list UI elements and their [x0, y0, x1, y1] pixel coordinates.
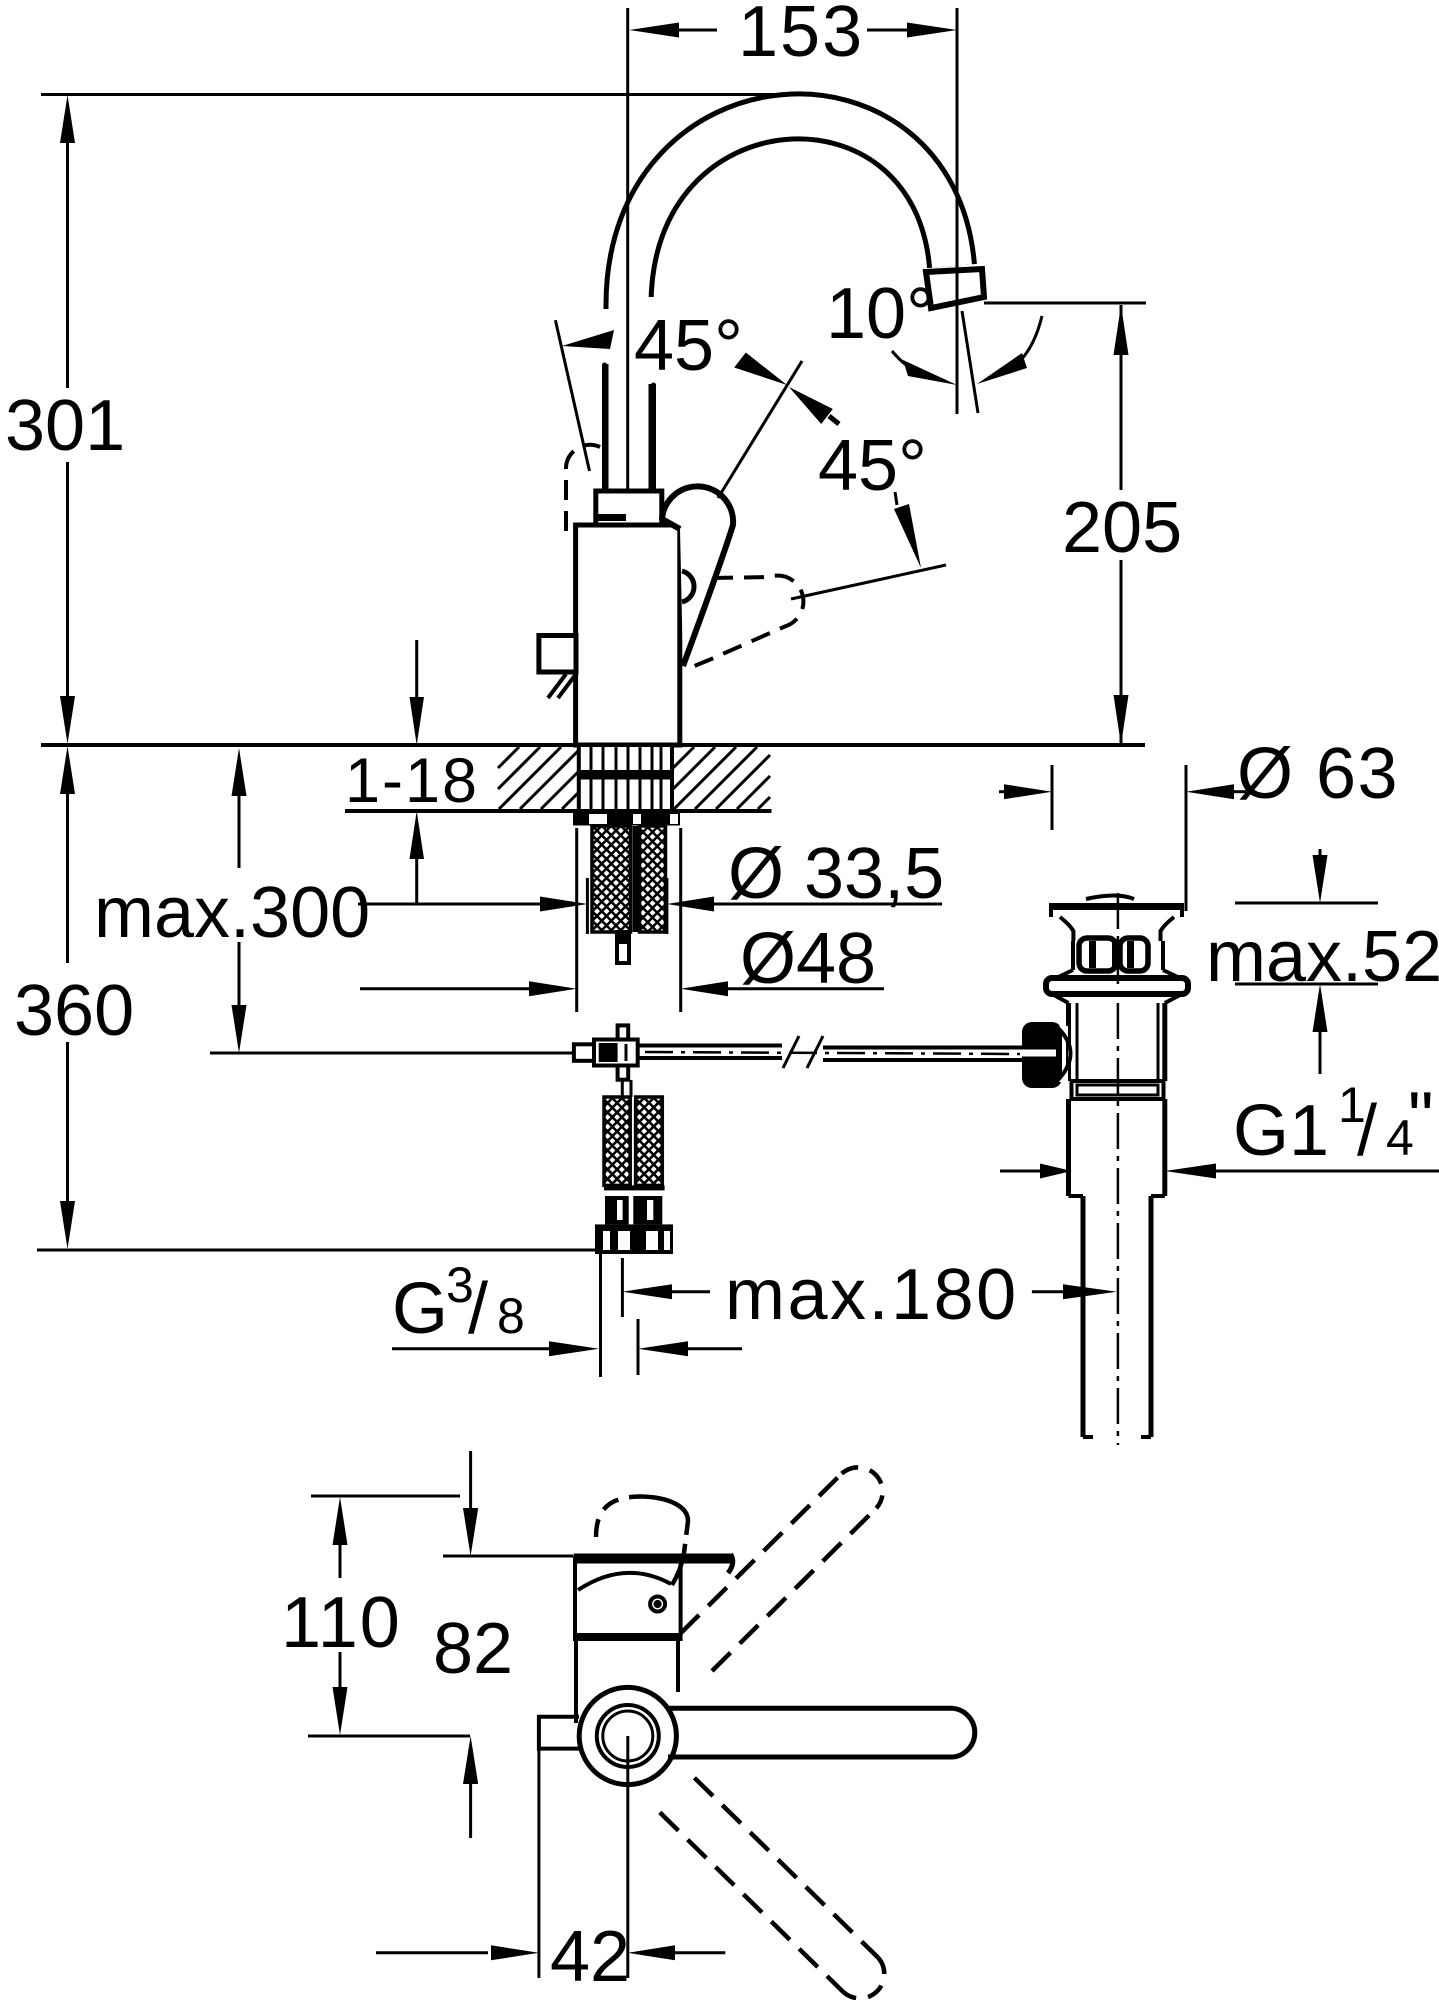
svg-text:/: / — [468, 1269, 488, 1349]
svg-text:G1: G1 — [1233, 1091, 1329, 1171]
svg-text:8: 8 — [497, 1288, 525, 1344]
svg-text:10°: 10° — [826, 274, 935, 354]
svg-text:Ø 33,5: Ø 33,5 — [728, 834, 944, 914]
svg-text:82: 82 — [433, 1609, 513, 1689]
svg-text:153: 153 — [738, 0, 864, 72]
svg-text:/: / — [1357, 1091, 1377, 1171]
svg-text:Ø 63: Ø 63 — [1237, 734, 1399, 814]
svg-text:205: 205 — [1062, 488, 1182, 568]
svg-text:42: 42 — [550, 1917, 630, 1997]
svg-text:360: 360 — [14, 971, 134, 1051]
svg-text:max.180: max.180 — [725, 1255, 1019, 1335]
svg-text:": " — [1408, 1078, 1434, 1158]
svg-text:301: 301 — [5, 386, 125, 466]
svg-text:max.52: max.52 — [1206, 917, 1439, 997]
svg-text:45°: 45° — [634, 306, 743, 386]
svg-text:45°: 45° — [818, 426, 927, 506]
svg-text:max.300: max.300 — [94, 873, 370, 953]
svg-text:G: G — [392, 1269, 448, 1349]
svg-text:110: 110 — [281, 1583, 402, 1663]
svg-text:Ø48: Ø48 — [740, 919, 876, 999]
svg-text:1-18: 1-18 — [345, 746, 479, 816]
